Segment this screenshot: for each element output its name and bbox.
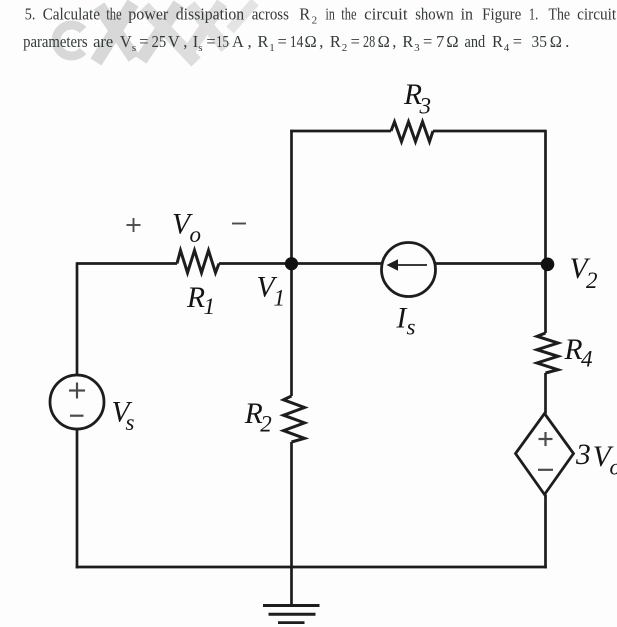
- Vs polarity marks: [69, 383, 85, 416]
- wire: center vertical from top wire to R2: [290, 130, 293, 396]
- svg-text:1: 1: [274, 286, 286, 311]
- svg-text:1: 1: [204, 294, 216, 319]
- wire: right vertical from top wire to R4: [544, 130, 547, 333]
- resistor R1: [177, 250, 219, 272]
- node V1 junction dot: [285, 257, 298, 270]
- Vo polarity marks: [127, 218, 247, 232]
- svg-text:s: s: [126, 410, 135, 435]
- wire: left vertical lower (Vs to bottom): [76, 429, 79, 568]
- current source Is: [382, 243, 436, 297]
- resistor R4: [537, 333, 558, 373]
- watermark: [56, 2, 255, 62]
- svg-text:4: 4: [581, 347, 593, 372]
- wire: right vertical from dependent source to bottom: [544, 495, 547, 569]
- current source arrow: [387, 259, 428, 270]
- wire: middle horizontal from R1 to current source: [219, 262, 383, 265]
- voltage source Vs: [50, 375, 104, 429]
- ground: [263, 604, 320, 607]
- resistor R3: [391, 122, 433, 142]
- svg-text:o: o: [190, 222, 202, 247]
- wire: top horizontal left of R3: [290, 130, 391, 133]
- svg-text:R: R: [186, 282, 205, 314]
- svg-text:3: 3: [575, 439, 591, 471]
- dependent source polarity marks: [538, 432, 553, 470]
- node V2 junction dot: [541, 258, 555, 272]
- svg-text:2: 2: [260, 412, 272, 437]
- wire: right vertical from R4 to dependent source: [544, 373, 547, 414]
- dependent source 3Vo (diamond): [516, 414, 574, 495]
- wire: top horizontal right of R3: [433, 130, 546, 133]
- circuit wires and parts: [50, 122, 574, 623]
- wire: center vertical from R2 through bottom wire to ground: [290, 442, 293, 605]
- svg-text:3: 3: [419, 94, 432, 119]
- svg-text:o: o: [610, 455, 617, 480]
- wire: left vertical upper (node A to Vs): [76, 262, 79, 375]
- svg-text:R: R: [564, 334, 583, 366]
- resistor R2: [284, 396, 305, 442]
- wire: bottom horizontal: [76, 566, 547, 569]
- svg-text:s: s: [407, 315, 416, 340]
- wire: middle horizontal from current source to node V2: [435, 262, 546, 265]
- svg-text:2: 2: [586, 268, 598, 293]
- wire: middle horizontal left segment: [77, 262, 177, 265]
